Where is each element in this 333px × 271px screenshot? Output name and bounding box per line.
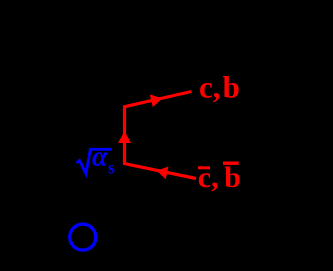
arrowhead on upper diagonal — [150, 95, 163, 108]
overbar on b — [223, 162, 239, 165]
sqrt radical sign (blue) — [77, 149, 112, 174]
blue circle — [70, 224, 96, 250]
svg-text:b: b — [224, 161, 241, 194]
wire: lower diagonal to cbar,bbar — [123, 163, 196, 178]
wire: vertical propagator segment — [123, 106, 126, 164]
svg-text:c,: c, — [199, 70, 221, 105]
svg-text:b: b — [223, 70, 240, 105]
overbar on c — [198, 166, 210, 169]
wire: upper diagonal to c,b — [123, 92, 191, 108]
arrowhead on lower diagonal — [157, 167, 169, 180]
svg-text:α: α — [92, 141, 108, 172]
svg-text:c,: c, — [198, 161, 219, 194]
svg-text:s: s — [108, 158, 115, 178]
arrowhead up (vertical line) — [118, 131, 131, 143]
